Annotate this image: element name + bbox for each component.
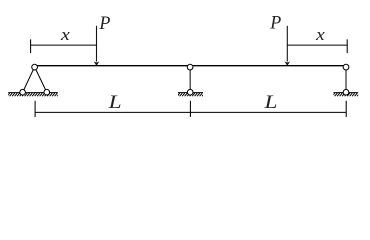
support A: apex hinge circle — [32, 64, 38, 70]
load arrow P2 head — [284, 61, 290, 66]
support A: triangle legs — [23, 67, 47, 93]
beam — [35, 65, 346, 67]
span dimension line (bottom) — [35, 111, 346, 113]
svg-text:x: x — [60, 25, 71, 44]
tick at support A (bottom dim) — [34, 101, 36, 117]
support C: top hinge circle — [343, 64, 349, 70]
support C: ground line — [334, 92, 359, 94]
support B: base hinge circle — [187, 89, 193, 95]
support B: top hinge circle — [187, 64, 193, 70]
support C: ground hatching — [334, 93, 359, 96]
tick at support B (bottom dim) — [189, 101, 191, 117]
tick right end of x-dim (right) — [346, 39, 348, 53]
svg-text:P: P — [98, 13, 110, 34]
svg-text:x: x — [315, 25, 326, 44]
support A: ground line — [8, 92, 58, 94]
support B: ground line — [178, 92, 203, 94]
support C: base hinge circle — [343, 89, 349, 95]
load arrow P1 shaft — [96, 26, 98, 62]
dimension line x (left) — [31, 44, 97, 46]
support B: link bar — [189, 67, 191, 92]
tick left end of x-dim (left) — [30, 39, 32, 53]
support A: ground hatching — [8, 93, 58, 96]
svg-text:L: L — [263, 92, 277, 113]
support C: link bar — [345, 67, 347, 92]
support A: base hinge circle right — [44, 89, 50, 95]
load arrow P2 shaft — [286, 26, 288, 62]
tick at support C (bottom dim) — [345, 101, 347, 117]
support A: base hinge circle left — [20, 89, 26, 95]
svg-text:L: L — [107, 92, 121, 113]
load arrow P1 head — [94, 61, 100, 66]
support B: ground hatching — [178, 93, 203, 96]
svg-text:P: P — [269, 13, 281, 34]
dimension line x (right) — [287, 44, 347, 46]
